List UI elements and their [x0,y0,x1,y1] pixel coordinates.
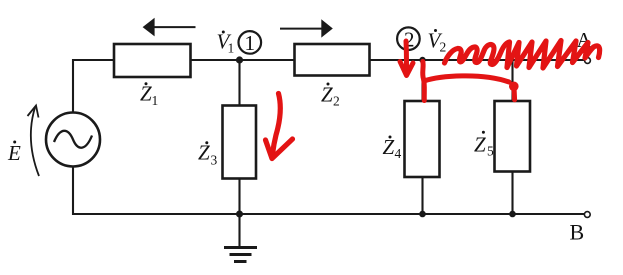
svg-text:Z: Z [198,141,210,165]
red annotation bridge Z4 to Z5 [424,76,519,100]
label Z4 [383,135,402,161]
wire bottom rail [73,213,584,215]
terminal B [584,212,590,218]
svg-text:1: 1 [152,93,159,108]
terminal A [585,58,591,64]
wire Z4 to bottom rail [421,177,423,214]
svg-text:1: 1 [244,31,255,55]
current arrow right over Z2 [280,19,333,37]
svg-text:4: 4 [395,146,402,161]
label E [7,141,21,166]
wire node1 to Z3 [238,60,240,106]
svg-text:E: E [7,141,21,165]
svg-text:1: 1 [228,41,235,56]
node number 1 [239,31,262,55]
red annotation scribble top right [445,41,600,69]
svg-text:3: 3 [211,153,218,168]
wire left riser top [72,59,74,113]
svg-text:5: 5 [487,144,494,159]
source direction arrow [28,106,40,177]
bottom node dot at Z4 [419,211,426,218]
AC source E [46,113,100,167]
svg-text:2: 2 [333,94,340,109]
label V2 [428,29,447,55]
label Z2 [321,82,340,108]
wire top rail [73,59,585,61]
node V1 dot [236,56,243,63]
ground [224,214,257,262]
wire Z3 to bottom rail [238,178,240,214]
resistor Z3 [223,106,257,179]
wire node2 to Z4 [421,60,423,101]
resistor Z1 [114,44,191,77]
resistor Z4 [405,101,440,177]
node number 2 [397,27,420,51]
bottom node dot at Z5 [509,211,516,218]
resistor Z2 [295,44,370,76]
red annotation arrow at Z3 [266,94,293,159]
bottom node dot at Z3 [236,211,243,218]
label V1 [217,29,235,55]
resistor Z5 [495,101,531,172]
node 2 junction dot [419,57,425,63]
svg-text:Z: Z [474,133,486,157]
wire top rail to Z5 [511,60,513,101]
svg-text:2: 2 [440,40,447,55]
svg-text:Z: Z [321,82,333,106]
red annotation stroke into Z4 [423,62,425,101]
svg-text:Z: Z [383,135,395,159]
wire Z5 to bottom rail [511,172,513,215]
red annotation arrow at node 2 [400,41,413,76]
label Z3 [198,141,218,168]
current arrow left over Z1 [143,18,196,37]
svg-text:B: B [570,220,585,245]
label Z5 [474,131,494,159]
wire left riser bottom [72,166,74,215]
label Z1 [140,82,158,109]
